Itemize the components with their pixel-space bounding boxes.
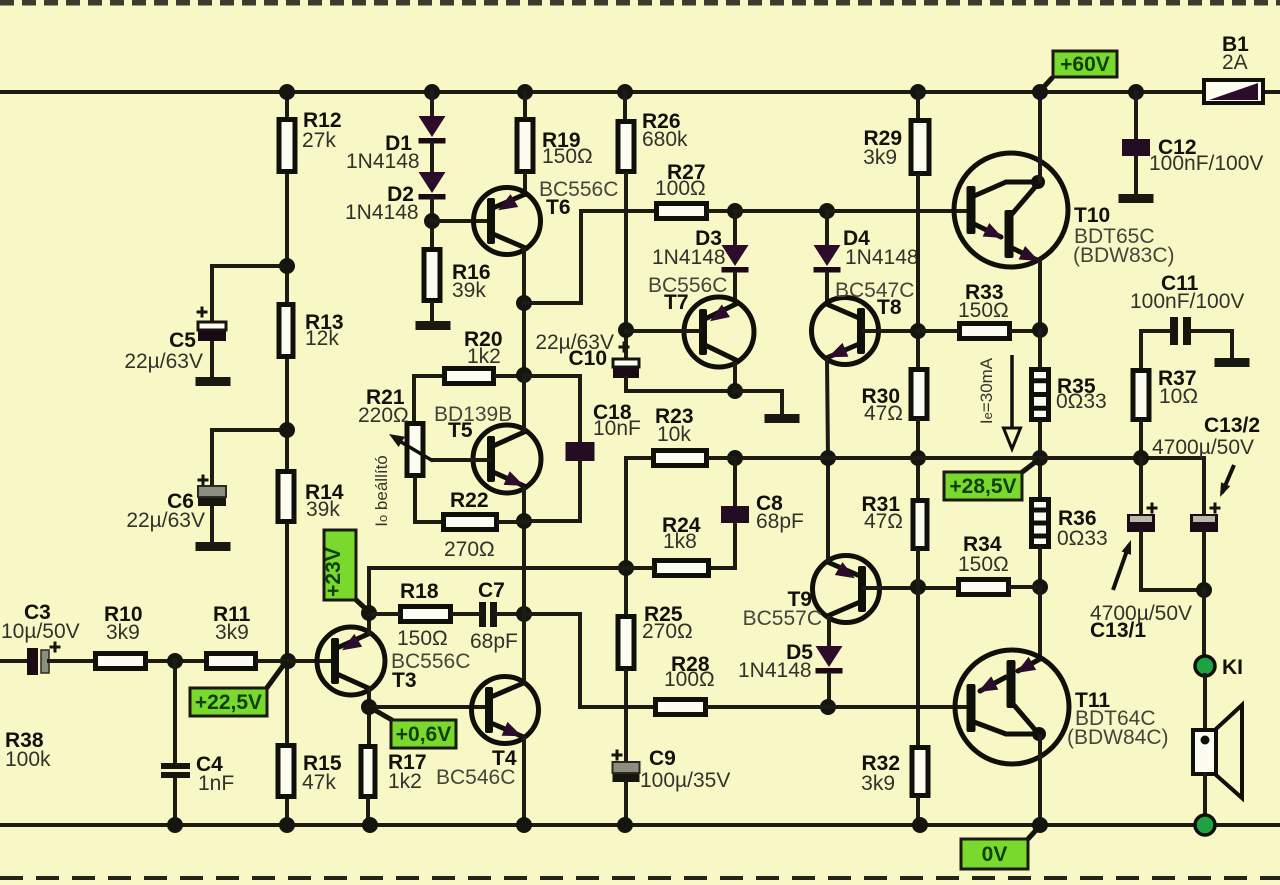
resistor R11 <box>207 654 256 669</box>
svg-text:10k: 10k <box>657 423 691 446</box>
transistor T6 BC556C <box>474 188 541 255</box>
diode D5 1N4148 <box>816 646 843 674</box>
+23V wire <box>369 566 652 570</box>
junction D3 top <box>727 203 743 219</box>
diode D1 1N4148 <box>419 116 446 144</box>
svg-text:1N4148: 1N4148 <box>652 246 726 269</box>
svg-text:T7: T7 <box>664 291 689 314</box>
resistor R30 <box>911 370 927 419</box>
capacitor C13/2 <box>1190 514 1218 532</box>
wire R22 right <box>499 520 524 524</box>
svg-text:1N4148: 1N4148 <box>845 246 919 269</box>
wire KI-speaker <box>1203 675 1207 731</box>
wire C8-R24 <box>711 523 735 568</box>
capacitor C6 <box>198 486 226 506</box>
diode D2 1N4148 <box>419 172 446 200</box>
wire D4-T8 collector <box>825 273 829 304</box>
junction rail-R12 <box>279 84 295 100</box>
wire speaker-rail <box>1203 774 1207 825</box>
capacitor C5 <box>198 322 226 341</box>
wire R29-R30 <box>916 176 920 367</box>
svg-text:10µ/50V: 10µ/50V <box>1 620 80 643</box>
svg-text:39k: 39k <box>306 498 340 521</box>
svg-text:68pF: 68pF <box>470 630 518 653</box>
wire rail-R19 <box>523 92 527 117</box>
wire Vas row <box>735 456 1204 460</box>
wire C11 left <box>1141 331 1170 368</box>
svg-text:T6: T6 <box>546 196 571 219</box>
wire R37-output <box>1139 422 1143 458</box>
wire T8 emitter <box>827 360 828 458</box>
transistor T4 BC546C <box>472 677 539 744</box>
resistor R15 <box>278 746 294 797</box>
resistor R22 <box>444 515 497 530</box>
wire T7 base <box>626 329 700 333</box>
fuse B1 2A <box>1204 80 1263 103</box>
svg-text:47Ω: 47Ω <box>864 510 903 533</box>
wire R28-T11 base <box>708 705 968 709</box>
svg-text:+22,5V: +22,5V <box>195 691 262 714</box>
junction T10 emitter node <box>1032 322 1048 338</box>
wire R17-rail <box>366 799 370 825</box>
wire C4 column <box>173 661 177 764</box>
svg-text:C5: C5 <box>169 329 196 352</box>
top dashed border <box>0 0 1280 6</box>
svg-text:100nF/100V: 100nF/100V <box>1149 152 1263 175</box>
wire D5-R28 node <box>827 674 831 707</box>
wire R24 left <box>626 566 652 570</box>
junction T11-rail <box>1032 817 1048 833</box>
wire R35-output <box>1038 422 1042 497</box>
wire D3-T7 emitter <box>733 273 737 302</box>
junction output node <box>1032 450 1048 466</box>
wire T9 collector <box>827 618 831 647</box>
transistor T8 BC547C <box>812 298 879 365</box>
wire output to C13/2 <box>1202 458 1206 514</box>
svg-text:100µ/35V: 100µ/35V <box>640 769 730 792</box>
svg-text:(BDW83C): (BDW83C) <box>1073 244 1175 267</box>
wire C9-rail <box>624 782 628 825</box>
junction R32-rail <box>912 817 928 833</box>
svg-text:4700µ/50V: 4700µ/50V <box>1090 602 1192 625</box>
wire T3 collector <box>367 689 371 744</box>
svg-text:27k: 27k <box>302 129 336 152</box>
resistor R23 <box>654 451 707 466</box>
resistor R17 <box>361 747 375 797</box>
junction D2-T6 base <box>424 213 440 229</box>
capacitor C12 <box>1122 139 1150 156</box>
svg-text:BD139B: BD139B <box>434 403 512 426</box>
junction T3 emitter node <box>361 605 377 621</box>
wire C11 right to ground <box>1191 331 1232 358</box>
wire R21-R22 <box>415 478 441 522</box>
svg-text:KI: KI <box>1222 656 1243 679</box>
wire R33-R35 <box>1038 330 1042 367</box>
svg-text:39k: 39k <box>452 279 486 302</box>
wire C13 bottoms <box>1141 532 1204 590</box>
junction T7 collector <box>727 383 743 399</box>
transistor T5 BD139B <box>473 425 541 493</box>
wire rail-C12 <box>1134 92 1138 139</box>
svg-text:BC557C: BC557C <box>743 607 822 630</box>
node output ground <box>1195 815 1215 835</box>
wire R23 right <box>709 456 735 460</box>
0V ground rail <box>0 823 1280 827</box>
wire C7 node to R28 <box>524 614 653 707</box>
junction R12-C5 <box>279 258 295 274</box>
current arrow Ie=30mA <box>1004 355 1021 449</box>
wire D3-D4 <box>735 209 827 213</box>
transistor T7 BC556C <box>684 297 754 367</box>
capacitor C10 <box>613 359 639 378</box>
junction rail-T10 <box>1032 84 1048 100</box>
resistor R31 <box>913 501 927 549</box>
wire T10 collector to rail <box>1038 92 1042 181</box>
junction C7 node <box>516 606 532 622</box>
wire input <box>0 659 27 663</box>
resistor R16 <box>424 250 440 301</box>
svg-text:3k9: 3k9 <box>215 621 249 644</box>
resistor R28 <box>656 700 706 715</box>
pointer C13/1 <box>1113 545 1129 590</box>
resistor R19 <box>517 120 533 172</box>
wire T3 emitter <box>367 613 371 633</box>
wire R33 right <box>1012 329 1040 333</box>
wire R12 column <box>285 92 289 117</box>
resistor R10 <box>96 654 146 669</box>
transistor T9 BC557C <box>813 556 880 623</box>
wire R33 left <box>918 329 957 333</box>
junction T9 base node <box>910 579 926 595</box>
wire C18 bottom <box>524 461 580 521</box>
svg-text:0Ω33: 0Ω33 <box>1056 390 1107 413</box>
wire T4 emitter <box>522 738 526 825</box>
ground C6 <box>196 542 231 551</box>
wire T10 emitter <box>1038 260 1042 330</box>
svg-text:150Ω: 150Ω <box>542 145 593 168</box>
resistor R20 <box>445 369 494 384</box>
svg-text:22µ/63V: 22µ/63V <box>124 350 203 373</box>
wire R18-C7 <box>453 612 479 616</box>
junction rail-R26 <box>617 84 633 100</box>
resistor R27 <box>657 204 707 219</box>
wire R10-R11 <box>148 659 204 663</box>
svg-text:10nF: 10nF <box>593 417 641 440</box>
wire R19-T6 emitter <box>523 174 527 195</box>
junction T11 emitter node <box>1032 579 1048 595</box>
svg-text:+60V: +60V <box>1060 53 1110 76</box>
svg-text:T10: T10 <box>1074 204 1110 227</box>
wire T11 emitter <box>1038 587 1042 658</box>
junction input node <box>280 653 296 669</box>
svg-text:150Ω: 150Ω <box>958 299 1009 322</box>
wire D1-D2 <box>430 143 434 174</box>
svg-text:R18: R18 <box>400 580 439 603</box>
wire rail-D1 <box>430 92 434 118</box>
svg-text:3k9: 3k9 <box>861 772 895 795</box>
svg-text:C7: C7 <box>478 579 505 602</box>
wire R20 right <box>496 374 524 378</box>
svg-text:270Ω: 270Ω <box>444 538 495 561</box>
svg-text:68pF: 68pF <box>756 510 804 533</box>
svg-text:1N4148: 1N4148 <box>346 150 420 173</box>
transistor T3 BC556C <box>317 627 385 695</box>
svg-text:C9: C9 <box>649 747 676 770</box>
junction T3 collector node <box>361 699 377 715</box>
diode D4 1N4148 <box>825 211 829 246</box>
junction C4 node <box>167 653 183 669</box>
junction rail-R19 <box>517 84 533 100</box>
svg-text:3k9: 3k9 <box>863 146 897 169</box>
svg-text:100nF/100V: 100nF/100V <box>1130 290 1244 313</box>
junction C9-rail <box>617 817 633 833</box>
junction rail-D1 <box>424 84 440 100</box>
junction C13 node <box>1196 582 1212 598</box>
svg-text:Io beállító: Io beállító <box>372 455 391 527</box>
svg-text:100Ω: 100Ω <box>664 668 715 691</box>
svg-text:220Ω: 220Ω <box>358 404 409 427</box>
capacitor C18 <box>524 376 580 442</box>
wire R34 right <box>1011 585 1040 589</box>
junction T8-T9 emitters <box>820 450 836 466</box>
junction rail-C12 <box>1128 84 1144 100</box>
ground R16 <box>416 321 451 330</box>
pointer C13/2 <box>1222 465 1234 493</box>
resistor R26 <box>618 122 634 172</box>
wire C6 branch <box>212 430 287 486</box>
svg-text:0Ω33: 0Ω33 <box>1057 527 1108 550</box>
svg-text:270Ω: 270Ω <box>642 620 693 643</box>
node KI <box>1195 656 1215 676</box>
svg-text:T3: T3 <box>392 669 417 692</box>
wire T6 base <box>432 219 490 223</box>
wire T9 base <box>864 586 956 590</box>
wire R36-T11 <box>1038 549 1042 588</box>
svg-text:1k2: 1k2 <box>388 770 422 793</box>
wire D2-R16 <box>430 198 434 247</box>
resistor R36 0Ω33 <box>1029 500 1051 547</box>
svg-text:+0,6V: +0,6V <box>396 723 451 746</box>
wire T5 base <box>433 458 489 462</box>
svg-text:R22: R22 <box>450 489 489 512</box>
wire R20 top <box>414 374 442 378</box>
svg-text:100k: 100k <box>5 748 51 771</box>
svg-text:12k: 12k <box>305 327 339 350</box>
svg-text:47k: 47k <box>302 771 336 794</box>
ground C11 <box>1215 358 1250 367</box>
label 0V <box>1027 827 1039 840</box>
resistor R12 <box>279 120 295 172</box>
svg-text:4700µ/50V: 4700µ/50V <box>1152 436 1254 459</box>
junction Vas node <box>910 450 926 466</box>
svg-text:1k8: 1k8 <box>663 530 697 553</box>
wire R31-R32 <box>916 551 920 745</box>
svg-text:1N4148: 1N4148 <box>738 659 812 682</box>
bottom dashed border <box>0 876 1280 880</box>
junction C4-rail <box>167 817 183 833</box>
junction T7 base / C10 <box>618 322 634 338</box>
svg-text:1k2: 1k2 <box>467 345 501 368</box>
svg-text:BC547C: BC547C <box>835 279 914 302</box>
wire T8 base <box>864 329 918 333</box>
wire C12-ground <box>1134 156 1138 194</box>
junction R37 output <box>1133 450 1149 466</box>
wire R23 <box>626 456 651 460</box>
wire R26-C10 <box>624 174 628 359</box>
wire T3em-R18 <box>369 612 398 616</box>
wire T3-T4 base <box>369 705 488 709</box>
junction R13-C6 <box>279 422 295 438</box>
svg-text:100Ω: 100Ω <box>655 177 706 200</box>
label +28,5V <box>1021 460 1038 473</box>
resistor R32 <box>912 748 928 796</box>
svg-text:+28,5V: +28,5V <box>949 475 1016 498</box>
resistor R25 <box>618 617 634 669</box>
transistor T10 BDT65C darlington <box>954 153 1068 267</box>
feedback column x=626 <box>624 458 628 614</box>
capacitor C7 <box>479 602 497 627</box>
svg-text:T8: T8 <box>877 296 902 319</box>
svg-text:1nF: 1nF <box>198 772 234 795</box>
svg-text:2A: 2A <box>1222 51 1248 74</box>
svg-text:10Ω: 10Ω <box>1159 385 1198 408</box>
+60V supply rail <box>0 90 1204 94</box>
svg-text:T5: T5 <box>448 419 473 442</box>
wire R30 bottom <box>916 421 920 498</box>
junction T8 base node <box>910 323 926 339</box>
capacitor C3 <box>27 648 49 675</box>
ground C12 <box>1119 194 1154 203</box>
svg-text:680k: 680k <box>642 128 688 151</box>
svg-text:0V: 0V <box>982 843 1008 866</box>
capacitor C8 <box>733 458 737 506</box>
diode D3 1N4148 <box>733 211 737 246</box>
junction R24-R25 <box>618 560 634 576</box>
wire R32-rail <box>916 798 920 825</box>
svg-text:150Ω: 150Ω <box>958 553 1009 576</box>
svg-text:(BDW84C): (BDW84C) <box>1067 726 1169 749</box>
svg-text:1N4148: 1N4148 <box>345 201 419 224</box>
resistor R37 <box>1133 371 1149 420</box>
ground C5 <box>196 377 231 386</box>
label +60V <box>1041 78 1052 90</box>
label +0,6V <box>371 708 392 720</box>
junction R20-T5 collector <box>516 367 532 383</box>
junction T6 collector <box>516 295 532 311</box>
resistor R14 <box>278 472 294 522</box>
label +22,5V <box>266 663 285 689</box>
resistor R13 <box>279 305 293 357</box>
wire D4-T10 base <box>827 209 968 213</box>
wire T5 collector <box>522 376 526 430</box>
svg-text:150Ω: 150Ω <box>397 627 448 650</box>
junction D5-R28 <box>820 699 836 715</box>
wire T4 collector column <box>522 521 526 683</box>
junction D4 top <box>819 203 835 219</box>
wire C10 bottom <box>626 378 735 391</box>
wire to KI <box>1202 590 1206 657</box>
wire T11 collector <box>1038 736 1042 825</box>
wire rail-R29 <box>916 92 920 118</box>
junction T5 emitter node <box>516 513 532 529</box>
wire T7 collector to ground <box>735 391 782 414</box>
svg-text:Ie=30mA: Ie=30mA <box>977 357 996 424</box>
capacitor C4 <box>161 763 190 778</box>
resistor R24 <box>655 561 709 576</box>
resistor R29 <box>911 121 929 174</box>
wire R25-C9 <box>624 671 628 763</box>
capacitor C11 <box>1170 317 1191 345</box>
resistor R35 0Ω33 <box>1029 370 1051 420</box>
label +23V <box>353 597 368 611</box>
capacitor C9 <box>613 762 640 782</box>
wire C5 branch <box>212 266 287 322</box>
wire C7-junction <box>497 612 524 616</box>
svg-text:C13/2: C13/2 <box>1204 414 1260 437</box>
wire T9 emitter <box>826 458 830 560</box>
wire R27-D3 <box>709 209 735 213</box>
transistor T11 BDT64C darlington <box>955 650 1069 764</box>
junction rail-R29 <box>910 84 926 100</box>
wire C3-R10 <box>49 659 93 663</box>
svg-text:22µ/63V: 22µ/63V <box>126 509 205 532</box>
svg-text:C10: C10 <box>568 347 607 370</box>
wire R11-T3 base <box>258 659 332 663</box>
junction R15-rail <box>279 817 295 833</box>
resistor R18 <box>401 607 451 622</box>
speaker <box>1193 705 1242 798</box>
svg-text:47Ω: 47Ω <box>864 402 903 425</box>
wire rail-R26 <box>623 92 627 119</box>
wire T5 emitter <box>522 489 526 521</box>
svg-text:3k9: 3k9 <box>106 621 140 644</box>
wire R16-ground <box>430 303 434 321</box>
junction C8 top <box>727 450 743 466</box>
svg-text:+23V: +23V <box>322 547 345 597</box>
resistor R33 <box>960 324 1010 339</box>
capacitor C13/1 <box>1139 458 1143 514</box>
resistor R21 trimmer <box>407 424 423 476</box>
svg-text:BC546C: BC546C <box>436 766 515 789</box>
resistor R34 <box>959 580 1009 595</box>
junction T4-rail <box>516 817 532 833</box>
wire T7 collector <box>733 364 737 391</box>
wire T6 collector to R27 <box>524 211 654 303</box>
ground T7 <box>765 414 800 423</box>
junction R17-rail <box>362 817 378 833</box>
wire T6 collector <box>522 249 526 375</box>
